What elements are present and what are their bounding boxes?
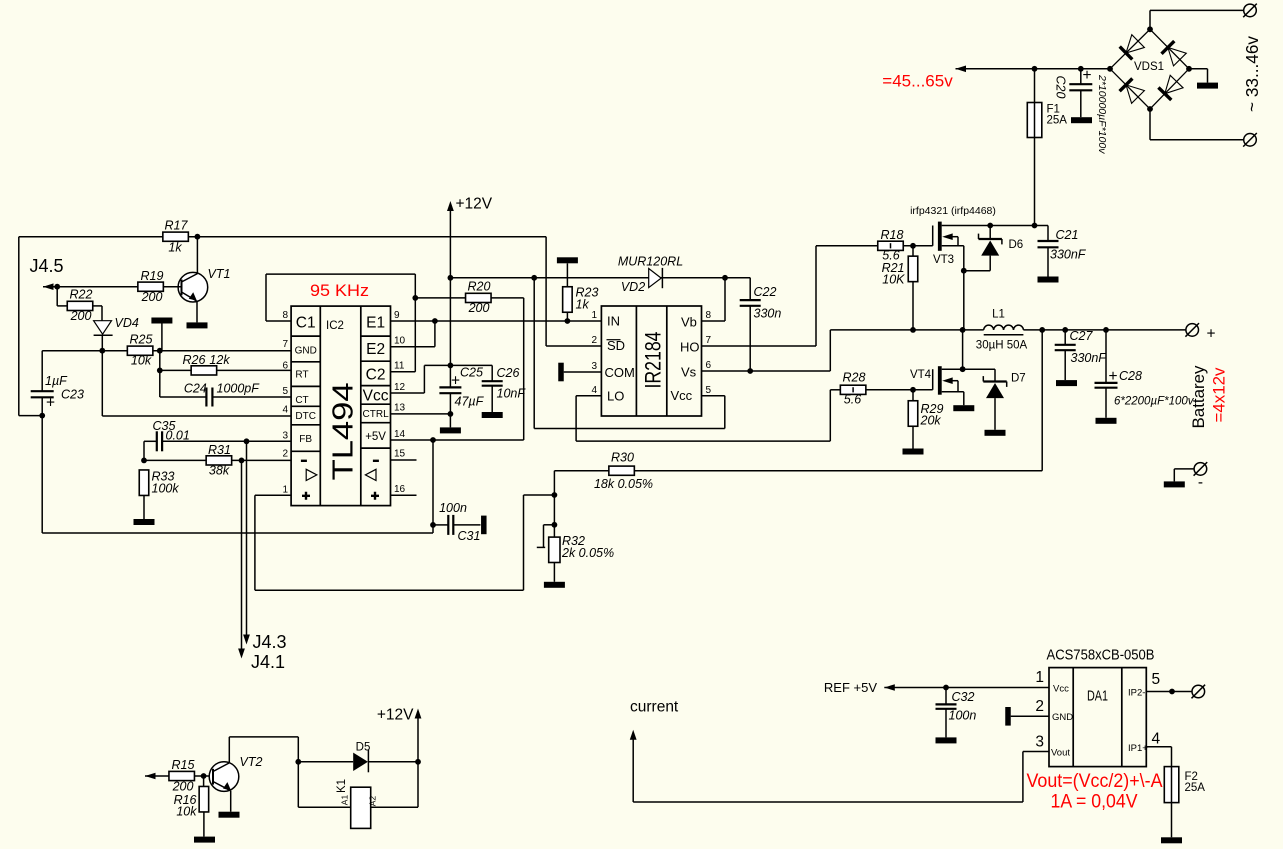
wire REF +5V to Vcc pin [884,684,1049,691]
svg-text:R28: R28 [843,371,866,385]
wire GND pin7 [153,350,291,352]
IC DA1 box [1049,668,1146,767]
TL494 right pin names [363,315,390,444]
junction dot CTRL [448,411,454,417]
svg-text:J4.1: J4.1 [251,652,285,672]
svg-text:13: 13 [394,403,406,414]
bridge diode bottom-left [1120,79,1145,104]
junction dot VT3 source [961,268,967,274]
wire L1 to + terminal [1023,329,1185,331]
svg-text:VT3: VT3 [933,254,954,266]
junction dot C27 top [1062,327,1068,333]
wall bar COM [558,363,601,382]
TL494 left pin numbers [282,310,288,496]
zener diode D6 [964,226,1023,271]
svg-text:2: 2 [1035,698,1044,715]
svg-text:VT2: VT2 [240,755,263,769]
terminal AC top [1243,4,1257,18]
svg-text:LO: LO [607,389,624,404]
capacitor C20 [1054,67,1109,154]
wire R15 arrow [145,773,169,780]
wire Vcc pin12 [391,365,451,393]
svg-text:25A: 25A [1047,115,1068,127]
IR2184 pin numbers [591,310,711,396]
DA1 pin numbers [1035,669,1160,751]
svg-text:E2: E2 [366,341,385,358]
svg-text:+5V: +5V [365,431,386,443]
svg-text:C25: C25 [460,366,483,380]
wire VT2 collector to D5 node [229,737,298,762]
ground bar above GND node [151,318,172,351]
svg-text:0.01: 0.01 [166,429,190,443]
transistor VT4 [910,366,974,411]
wire R28 to gate VT4 [866,389,933,391]
svg-text:C32: C32 [952,690,975,704]
transistor VT1 [178,237,230,329]
junction dot VD4 bottom [99,348,105,354]
svg-text:+12V: +12V [456,196,493,213]
wire R30 left [554,470,609,472]
wire left rail down [19,237,42,416]
svg-text:C27: C27 [1070,329,1094,343]
svg-text:R22: R22 [70,288,93,302]
resistor R17 [163,219,189,255]
label =45...65v [882,72,953,91]
junction dot R22 top [54,284,60,290]
svg-text:200: 200 [70,309,92,323]
wall bar DA1 GND [1005,707,1049,726]
wire J4.5 arrow [43,283,138,290]
wire DTC pin4 [102,351,291,416]
junction dot +12V rail [448,275,454,281]
capacitor C27 [1055,329,1108,386]
junction dot F1 bottom [1032,223,1038,229]
svg-text:C26: C26 [497,366,520,380]
svg-text:330nF: 330nF [1071,351,1108,365]
svg-text:CT: CT [295,395,308,406]
svg-text:16: 16 [394,484,406,495]
svg-text:Battarey: Battarey [1190,365,1208,429]
svg-text:VD4: VD4 [115,316,139,330]
svg-text:1A = 0,04V: 1A = 0,04V [1051,792,1138,813]
svg-text:A1: A1 [340,795,350,806]
junction dot VT1 collector [195,234,201,240]
junction dot +5V [430,437,436,443]
label ~ 33...46v [1242,36,1262,112]
svg-text:Vout=(Vcc/2)+\-A: Vout=(Vcc/2)+\-A [1027,771,1163,792]
resistor R18 [878,228,904,263]
svg-text:7: 7 [282,339,288,350]
bridge diode top-right [1162,41,1187,66]
terminal battery + [1185,323,1215,342]
svg-text:R31: R31 [208,443,231,457]
capacitor C26 [450,365,526,418]
svg-text:IP2-: IP2- [1128,688,1145,699]
label Vout formula [1027,771,1163,792]
ground bridge right [1189,69,1218,89]
terminal IP2- [1192,685,1206,699]
svg-text:2: 2 [282,449,288,460]
wire +5V pin14 [391,439,524,441]
svg-text:1000pF: 1000pF [217,382,261,396]
wire E1 to IN [391,320,602,322]
svg-text:E1: E1 [366,315,385,332]
svg-text:GND: GND [1052,712,1073,723]
junction dot bridge right [1186,66,1192,72]
svg-text:D6: D6 [1009,239,1024,251]
svg-text:47µF: 47µF [455,395,485,409]
junction dot C20 top [1078,66,1084,72]
svg-text:Vout: Vout [1051,748,1070,759]
wire VD4 node to R25 [42,350,127,352]
svg-text:+: + [1108,368,1117,385]
junction dot Vs C22 [747,368,753,374]
wire R22 to VD4 [93,306,102,321]
wire C1 loop [266,274,415,321]
svg-text:IC2: IC2 [326,320,344,332]
svg-text:10k: 10k [131,354,152,368]
bridge rectifier VDS1 frame [1110,29,1189,109]
relay K1 terminal labels [340,795,378,807]
svg-text:4: 4 [591,385,597,396]
ground bar above R23 [557,257,578,287]
transistor VT2 [209,737,262,818]
svg-text:CTRL: CTRL [363,409,390,420]
svg-text:1µF: 1µF [45,374,68,388]
svg-text:R20: R20 [468,280,491,294]
svg-text:C20: C20 [1054,76,1068,99]
power +12V bottom [377,707,422,762]
svg-text:Vcc: Vcc [1053,684,1069,695]
TL494 label IC2 [326,320,344,332]
svg-text:C31: C31 [458,529,481,543]
svg-text:6*2200µF*100v: 6*2200µF*100v [1114,396,1195,408]
svg-text:R25: R25 [130,333,153,347]
svg-text:R15: R15 [172,758,195,772]
bridge diode top-left [1120,35,1145,60]
svg-text:current: current [630,699,679,716]
junction dot D5 anode [295,759,301,765]
svg-text:R17: R17 [165,219,189,233]
svg-text:10k: 10k [176,805,197,819]
svg-text:IN: IN [607,314,620,329]
wire IP2- to terminal [1146,691,1192,693]
junction dot C31 [430,522,436,528]
TL494 right pin numbers [394,310,406,495]
svg-text:14: 14 [394,429,406,440]
svg-text:~ 33...46v: ~ 33...46v [1242,36,1262,112]
resistor R31 [206,443,232,478]
resistor R21 [882,246,918,330]
wire AC top to terminal [1150,10,1244,29]
junction dot C23 bottom [39,413,45,419]
wire pin1 loop [255,495,555,590]
resistor R15 [169,758,195,794]
wire LO to R28 [576,390,841,441]
junction dot R29 top [910,387,916,393]
svg-text:R19: R19 [141,269,164,283]
svg-text:1k: 1k [576,298,590,312]
svg-text:GND: GND [295,346,317,357]
svg-text:3: 3 [591,361,597,372]
wire R15 to base [195,775,213,777]
wire R20 to +5V rail [523,298,525,440]
junction dot +12V node [415,759,421,765]
junction dot R20 left [412,295,418,301]
svg-text:+: + [1206,326,1215,343]
label J4.1 [251,652,285,672]
label Battarey [1190,365,1208,429]
svg-text:5.6: 5.6 [844,393,861,407]
svg-text:+: + [46,395,55,412]
wire J4.1 [238,460,245,658]
svg-text:K1: K1 [336,779,348,793]
wire C23 rail to C31 [42,416,433,533]
capacitor C31 [433,501,487,543]
wire LO stub [576,395,601,397]
capacitor C22 [725,278,781,371]
net DC output =45...65v [956,66,1111,73]
resistor R22 [57,287,93,323]
wire SD net [546,237,601,346]
svg-text:200: 200 [172,780,194,794]
resistor R23 [563,286,599,322]
label ACS758xCB-050B [1047,648,1155,664]
resistor R28 [840,371,866,407]
svg-text:J4.5: J4.5 [30,256,64,276]
svg-text:Vcc: Vcc [363,388,389,405]
capacitor C35 [144,419,190,460]
wire Vs to switch node [702,330,831,371]
svg-text:VT1: VT1 [208,267,231,281]
resistor R29 [903,390,944,455]
svg-text:7: 7 [706,335,712,346]
svg-text:1k: 1k [168,241,182,255]
svg-text:=45...65v: =45...65v [882,72,953,91]
svg-text:COM: COM [605,365,635,380]
svg-text:IR2184: IR2184 [641,332,666,389]
capacitor C28 [1095,330,1195,424]
junction dot D6 top [987,223,993,229]
power +12V top [447,196,493,366]
wire VT4 drain [942,330,995,369]
svg-text:C28: C28 [1119,369,1142,383]
svg-text:10: 10 [394,336,406,347]
IC TL494 box [291,306,390,506]
wire Vb riser [702,278,726,321]
svg-text:+: + [1082,67,1091,84]
wire R30 feedback riser [634,330,1042,471]
svg-text:3: 3 [1035,734,1044,751]
svg-text:200: 200 [141,290,163,304]
svg-text:R18: R18 [881,228,904,242]
svg-text:10nF: 10nF [497,387,527,401]
resistor R25 [127,333,153,368]
TL494 left pin names [295,315,317,446]
svg-text:5: 5 [706,385,712,396]
label =4x12v [1210,367,1229,422]
wire HO to R18 [702,246,879,346]
capacitor C32 [936,688,977,744]
svg-text:D7: D7 [1011,373,1026,385]
bridge diode bottom-right [1158,75,1183,100]
svg-text:18k 0.05%: 18k 0.05% [594,477,653,491]
svg-text:12: 12 [394,382,406,393]
svg-text:J4.3: J4.3 [253,632,287,652]
junction dot bridge top [1147,26,1153,32]
svg-text:100k: 100k [152,482,180,496]
svg-text:REF +5V: REF +5V [824,680,877,695]
svg-text:A2: A2 [368,796,378,807]
resistor R20 [415,280,523,316]
label J4.3 [253,632,287,652]
capacitor C21 [1038,226,1087,283]
svg-text:100n: 100n [439,501,467,515]
capacitor C24 [160,370,291,406]
resistor R33 [134,470,180,526]
junction dot C32 top [943,685,949,691]
wire RT pin6 and R26 [160,351,191,371]
wire J4.3 [243,441,250,644]
wire E2 riser [391,321,435,347]
zener diode D7 [983,369,1025,436]
svg-text:irfp4321 (irfp4468): irfp4321 (irfp4468) [910,205,996,217]
svg-text:200: 200 [468,301,490,315]
svg-text:MUR120RL: MUR120RL [618,255,683,269]
svg-text:C22: C22 [754,285,777,299]
label 1A = 0,04V [1051,792,1138,813]
svg-text:1: 1 [591,310,597,321]
svg-text:VT4: VT4 [910,369,932,381]
diode D5 [298,742,418,773]
svg-text:R30: R30 [611,451,634,465]
svg-text:HO: HO [680,340,700,355]
svg-text:1: 1 [1035,669,1044,686]
wire FB pin3 [162,440,291,442]
TL494 label [328,382,360,480]
label irfp4321 (irfp4468) [910,205,996,217]
svg-text:25A: 25A [1185,782,1206,794]
junction dot pin2 branch [239,458,245,464]
resistor R26 [183,353,292,375]
svg-text:=4x12v: =4x12v [1210,367,1229,422]
relay K1 [298,762,418,829]
svg-text:4: 4 [282,405,288,416]
svg-text:RT: RT [295,370,308,381]
svg-text:VDS1: VDS1 [1134,61,1164,73]
wire R19 to VT1 base [163,286,182,288]
junction dot R30 feedback [1039,327,1045,333]
wire VT3 drain [942,225,1048,227]
terminal AC bottom [1243,133,1257,147]
junction dot R32 wiper [552,522,558,528]
svg-text:2: 2 [591,335,597,346]
svg-text:D5: D5 [356,742,371,754]
junction dot R23 bottom [565,318,571,324]
junction dot C25 top [448,363,454,369]
junction dot R16 top [201,773,207,779]
wire pin16 stub [391,494,417,496]
junction dot VT4 drain riser [960,327,966,333]
junction dot Vcc branch [531,275,537,281]
IR2184 pin names [605,314,700,404]
junction dot RT node [157,368,163,374]
svg-text:+12V: +12V [377,707,414,724]
fuse F1 [1027,69,1067,226]
svg-text:Vcc: Vcc [671,388,693,403]
junction dot R32 upper [552,492,558,498]
svg-text:-: - [1198,474,1203,491]
svg-text:C23: C23 [61,388,84,402]
junction dot R21 top [910,243,916,249]
inductor L1 [976,309,1028,352]
svg-text:330nF: 330nF [1050,248,1087,262]
resistor R16 [174,776,215,843]
svg-text:IP1+: IP1+ [1128,743,1148,754]
svg-text:5: 5 [282,386,288,397]
transistor VT3 [933,222,964,330]
svg-text:R26: R26 [183,353,206,367]
junction dot bridge left [1107,66,1113,72]
svg-text:Vs: Vs [681,365,697,380]
wire pin15 stub [391,459,417,461]
IC IR2184 box [601,306,701,416]
junction dot GND node [157,348,163,354]
junction dot F1 top [1032,66,1038,72]
junction dot R33 top [141,458,147,464]
svg-text:8: 8 [706,310,712,321]
svg-text:5: 5 [1152,671,1161,688]
label 95 KHz [310,282,369,300]
junction dot FB [244,438,250,444]
wire Vcc return [534,278,725,429]
wire AC bottom to terminal [1150,109,1244,140]
label J4.5 [30,256,64,276]
svg-text:C1: C1 [296,315,316,332]
svg-text:C2: C2 [366,367,386,384]
wire C2 riser [391,298,416,372]
wire pin2 line [144,459,291,461]
junction dot Vb branch [722,275,728,281]
svg-text:20k: 20k [920,414,942,428]
resistor R30 [594,451,653,492]
svg-text:10K: 10K [882,273,905,287]
svg-text:3: 3 [282,431,288,442]
svg-text:38k: 38k [209,464,230,478]
svg-text:4: 4 [1152,731,1161,748]
svg-text:9: 9 [394,310,400,321]
junction dot IP2- [1169,689,1175,695]
svg-text:L1: L1 [992,309,1005,321]
fuse F2 [1146,747,1205,844]
junction dot E1 E2 [432,318,438,324]
svg-text:DA1: DA1 [1087,689,1108,705]
svg-text:C21: C21 [1056,228,1079,242]
wire +5V down [432,440,434,533]
svg-text:DTC: DTC [295,411,316,422]
trimmer R32 [537,471,614,588]
wire +12V top rail [19,236,546,238]
resistor R19 [138,269,164,304]
svg-text:1: 1 [282,485,288,496]
TL494 comparator symbols [301,460,379,500]
junction dot R21 bottom [910,327,916,333]
svg-text:100n: 100n [949,709,977,723]
svg-text:15: 15 [394,449,406,460]
svg-text:330n: 330n [754,307,782,321]
junction dot C28 top [1103,327,1109,333]
svg-text:30µH 50A: 30µH 50A [976,340,1028,352]
